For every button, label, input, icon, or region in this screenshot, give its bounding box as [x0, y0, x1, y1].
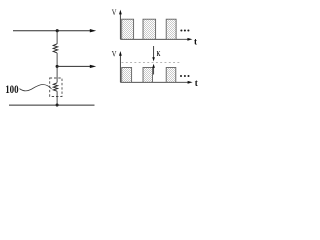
K dimension up arrow — [153, 67, 155, 74]
svg-text:K: K — [157, 49, 161, 58]
waveform 1 horizontal axis arrowhead — [187, 38, 192, 41]
waveform 2 pulse 1 — [122, 68, 132, 83]
node junction dot C (bottom) — [56, 103, 59, 106]
svg-text:V: V — [112, 7, 117, 17]
waveform 1 vertical axis — [119, 13, 121, 40]
wire from node B down into dashed box — [56, 66, 58, 82]
waveform 2 horizontal axis (t) — [120, 81, 188, 83]
arrowhead on top wire — [90, 29, 96, 32]
waveform 2 horizontal axis arrowhead — [188, 81, 193, 84]
waveform 2 pulse 2 — [143, 68, 153, 83]
waveform 2 ellipsis dots — [180, 75, 182, 77]
waveform 1 horizontal axis (t) — [120, 38, 188, 40]
wire top horizontal bus — [13, 30, 90, 32]
waveform 2 vertical axis — [119, 54, 121, 82]
wire from resistor 100 down to node C — [56, 91, 58, 105]
K dimension down arrow — [153, 46, 155, 58]
resistor R (upper zigzag) — [53, 44, 58, 53]
waveform 2 vertical axis arrowhead — [119, 51, 122, 56]
dashed box around resistor 100 — [50, 78, 62, 97]
resistor 100 (zigzag inside dashed box) — [53, 83, 57, 91]
node junction dot A (top) — [56, 29, 59, 32]
node junction dot B (middle) — [56, 65, 59, 68]
wire from resistor down to node B — [56, 53, 58, 67]
wire from node A down to resistor — [56, 31, 58, 44]
svg-text:100: 100 — [5, 84, 19, 96]
svg-text:V: V — [112, 49, 117, 59]
wire bottom horizontal bus — [9, 104, 95, 106]
leader line from label 100 to dashed box — [20, 84, 52, 90]
arrowhead on middle wire — [90, 65, 96, 68]
waveform 2 dashed reference level line — [122, 61, 181, 63]
waveform 1 ellipsis dots — [180, 29, 182, 31]
waveform 2 pulse 3 — [166, 68, 176, 83]
wire middle horizontal tap — [57, 65, 90, 67]
waveform 1 vertical axis arrowhead — [119, 10, 122, 15]
waveform 1 pulse 3 — [166, 19, 176, 39]
waveform 1 pulse 1 — [122, 19, 134, 39]
waveform 1 pulse 2 — [143, 19, 156, 39]
